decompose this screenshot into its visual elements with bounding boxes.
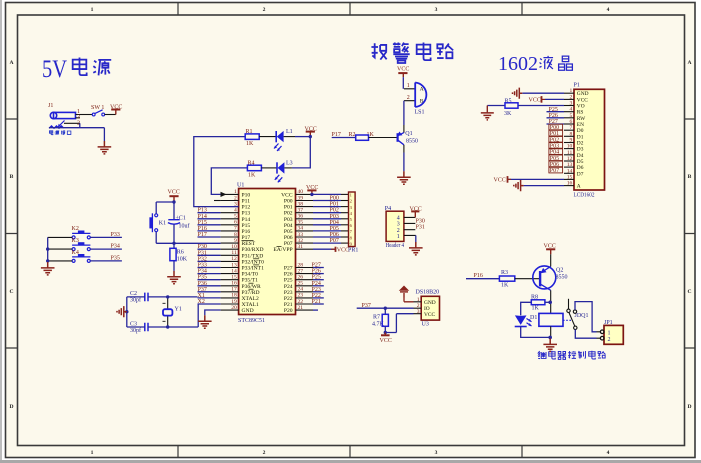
svg-text:D1: D1 <box>530 315 537 321</box>
wire jack sleeve to ground <box>49 123 104 141</box>
svg-text:XTAL1: XTAL1 <box>242 302 259 308</box>
port label P02 <box>549 137 563 144</box>
svg-text:37: 37 <box>298 208 304 214</box>
junction <box>548 301 552 305</box>
svg-text:D3: D3 <box>577 147 584 153</box>
svg-text:4: 4 <box>397 216 400 222</box>
svg-text:P34: P34 <box>198 269 207 275</box>
svg-text:REST: REST <box>242 241 256 247</box>
svg-text:LCD1602: LCD1602 <box>574 193 595 199</box>
svg-text:X1: X1 <box>198 293 205 299</box>
junction <box>125 310 128 313</box>
svg-text:30pf: 30pf <box>130 327 141 334</box>
LED L1 <box>274 129 293 151</box>
sensor U3 DS18B20 body <box>414 290 440 328</box>
svg-text:15: 15 <box>567 174 573 180</box>
svg-text:P01: P01 <box>284 205 293 211</box>
svg-text:P26: P26 <box>312 269 321 275</box>
svg-text:P22: P22 <box>312 293 321 299</box>
svg-text:P13: P13 <box>198 208 207 214</box>
power VCC (buzzer) <box>397 67 409 78</box>
svg-text:R7: R7 <box>373 315 380 321</box>
svg-text:B: B <box>420 98 424 104</box>
svg-text:R3: R3 <box>501 270 508 276</box>
svg-text:VCC: VCC <box>337 248 349 254</box>
svg-text:2: 2 <box>397 228 400 234</box>
svg-text:GND: GND <box>242 308 254 314</box>
svg-text:L3: L3 <box>286 161 293 167</box>
svg-text:3: 3 <box>570 101 573 107</box>
power VCC (R7, pointing down) <box>380 333 392 345</box>
capacitor C3 30pf <box>130 321 148 334</box>
svg-text:P32/INT0: P32/INT0 <box>242 259 265 265</box>
svg-text:10: 10 <box>231 244 237 250</box>
svg-text:P26: P26 <box>284 272 293 278</box>
svg-text:7: 7 <box>570 125 573 131</box>
svg-text:3: 3 <box>397 222 400 228</box>
svg-text:U3: U3 <box>422 322 429 328</box>
svg-text:32: 32 <box>298 238 304 244</box>
net labels P27-P21 <box>312 263 321 306</box>
svg-text:P02: P02 <box>284 211 293 217</box>
wire K3 right to P34 <box>90 248 122 250</box>
svg-text:A: A <box>577 184 581 190</box>
transistor Q1 8550 <box>397 131 418 145</box>
power VCC (P4 pin4) <box>410 207 422 218</box>
wire left cap rail <box>126 297 128 327</box>
svg-text:15: 15 <box>231 275 237 281</box>
wire R6 to ground <box>173 261 175 271</box>
power VCC (supply) <box>110 105 122 115</box>
svg-text:27: 27 <box>298 268 304 274</box>
wire crystal bottom to X2 <box>127 304 198 327</box>
svg-text:P37/RD: P37/RD <box>242 290 260 296</box>
svg-text:1K: 1K <box>501 283 509 289</box>
wire switch common to JP1 pin2 <box>575 330 596 339</box>
svg-text:2: 2 <box>263 450 266 456</box>
svg-text:D4: D4 <box>577 153 584 159</box>
svg-text:2: 2 <box>407 95 410 101</box>
ground (Q1) <box>397 171 411 184</box>
svg-text:PR1: PR1 <box>348 248 358 254</box>
wire U3 pin1 to signal ground <box>404 298 414 302</box>
svg-text:10K: 10K <box>177 257 188 263</box>
svg-text:18: 18 <box>231 293 237 299</box>
svg-text:P00: P00 <box>284 199 293 205</box>
svg-text:P06: P06 <box>330 232 339 238</box>
svg-text:8550: 8550 <box>406 139 418 145</box>
svg-text:VCC: VCC <box>397 67 409 73</box>
resistor pack PR1 <box>349 192 356 247</box>
port label P03 <box>549 143 563 150</box>
power VCC (Q2) <box>544 244 556 255</box>
svg-text:P23: P23 <box>284 290 293 296</box>
junction <box>309 135 312 138</box>
svg-text:P04: P04 <box>284 223 293 229</box>
port label P00 <box>549 124 563 131</box>
wire R1 to L1 <box>259 136 276 138</box>
power VCC (mcu pin40) <box>306 185 318 195</box>
svg-text:STC89C51: STC89C51 <box>238 318 265 324</box>
capacitor C1 10uf <box>168 216 190 230</box>
power VCC (EA pin31, pointing right) <box>331 247 349 254</box>
ground (reset) <box>167 271 181 284</box>
svg-text:3: 3 <box>435 7 438 13</box>
junction <box>166 295 169 298</box>
svg-text:P06: P06 <box>284 235 293 241</box>
svg-text:P35: P35 <box>198 275 207 281</box>
svg-text:P33/INT1: P33/INT1 <box>242 266 265 272</box>
svg-text:LS1: LS1 <box>415 110 425 116</box>
signal ground (DS18B20) <box>399 286 409 298</box>
wire L3 right <box>284 167 292 169</box>
svg-text:P34/T0: P34/T0 <box>242 272 259 278</box>
svg-text:P01: P01 <box>330 202 339 208</box>
transistor Q2 8550 <box>533 266 568 290</box>
svg-text:P11: P11 <box>242 199 251 205</box>
ground (relay) <box>543 339 557 352</box>
svg-text:D7: D7 <box>577 171 584 177</box>
junction <box>310 193 313 196</box>
svg-text:P35/T1: P35/T1 <box>242 278 259 284</box>
svg-text:R6: R6 <box>177 250 184 256</box>
svg-text:VO: VO <box>577 104 585 110</box>
title: 继电器控制电路 <box>538 351 605 360</box>
svg-text:C: C <box>9 289 13 295</box>
svg-text:P32: P32 <box>198 256 207 262</box>
ground (lcd pin16, pointing left) <box>514 180 524 191</box>
svg-text:RS: RS <box>577 110 584 116</box>
wire K2 right to P33 <box>90 236 122 238</box>
port label P05 <box>549 155 563 162</box>
svg-text:38: 38 <box>298 201 304 207</box>
svg-text:VCC: VCC <box>110 105 122 111</box>
svg-text:16: 16 <box>567 181 573 187</box>
net labels P00-P07 <box>330 196 339 245</box>
svg-text:U1: U1 <box>237 183 244 189</box>
connector P4 Header 4 <box>385 206 416 249</box>
svg-text:P07: P07 <box>330 238 339 244</box>
wire D1 to ground rail <box>521 327 551 338</box>
svg-text:2: 2 <box>570 94 573 100</box>
connector J1 power jack <box>48 103 80 128</box>
svg-text:1: 1 <box>570 88 573 94</box>
lcd pin numbers <box>567 88 573 186</box>
svg-text:17: 17 <box>231 287 237 293</box>
resistor R7 4.7K <box>372 314 388 327</box>
ground (mcu pin20) <box>198 315 212 328</box>
svg-text:P05: P05 <box>284 229 293 235</box>
switch SW1 <box>91 105 105 116</box>
svg-text:P02: P02 <box>330 208 339 214</box>
power VCC (lcd pin2) <box>541 96 543 103</box>
svg-text:8: 8 <box>570 131 573 137</box>
svg-text:C: C <box>687 289 691 295</box>
wire R8 left down to D1 <box>521 302 532 315</box>
svg-text:P25: P25 <box>312 275 321 281</box>
svg-text:P25: P25 <box>549 107 558 113</box>
svg-text:P22: P22 <box>284 296 293 302</box>
lcd pin stubs <box>564 93 574 185</box>
svg-text:Y1: Y1 <box>175 307 182 313</box>
svg-text:P17: P17 <box>198 232 207 238</box>
svg-text:P31: P31 <box>198 250 207 256</box>
junction <box>46 259 49 262</box>
svg-text:Header 4: Header 4 <box>386 243 405 249</box>
wire VCC to Q2 emitter <box>550 254 552 266</box>
mcu left net label wires <box>198 213 221 304</box>
svg-text:P00: P00 <box>330 196 339 202</box>
svg-text:VCC: VCC <box>380 338 392 344</box>
svg-text:K1: K1 <box>159 221 166 227</box>
svg-text:11: 11 <box>567 150 573 156</box>
svg-text:2: 2 <box>234 195 237 201</box>
wire P37 to U3 pin2 <box>357 307 414 309</box>
port label P06 <box>549 161 563 168</box>
svg-text:P31/TXD: P31/TXD <box>242 253 264 259</box>
svg-text:40: 40 <box>298 189 304 195</box>
net labels left <box>198 208 207 305</box>
mcu left pin numbers <box>231 189 237 311</box>
wire R2 to Q1 base <box>369 137 398 139</box>
svg-text:Q2: Q2 <box>556 268 563 274</box>
svg-text:+C1: +C1 <box>176 216 186 222</box>
mcu right pin stubs <box>296 194 314 310</box>
svg-text:J1: J1 <box>48 103 53 109</box>
svg-text:XTAL2: XTAL2 <box>242 296 259 302</box>
svg-text:P34: P34 <box>111 244 120 250</box>
wire stub at mcu pin2 <box>214 200 221 202</box>
wire switch to VCC <box>105 114 116 116</box>
svg-text:10: 10 <box>567 144 573 150</box>
junction <box>384 331 387 334</box>
svg-text:P31: P31 <box>416 225 425 231</box>
svg-text:3: 3 <box>435 450 438 456</box>
svg-text:P33: P33 <box>111 232 120 238</box>
svg-text:P30/RXD: P30/RXD <box>242 247 264 253</box>
power VCC (leds) <box>305 127 317 137</box>
wire R7 bottom to U3 pin3 <box>385 314 413 333</box>
svg-text:P21: P21 <box>312 299 321 305</box>
svg-text:D1: D1 <box>577 134 584 140</box>
svg-text:28: 28 <box>298 262 304 268</box>
svg-text:K2: K2 <box>72 226 79 232</box>
wire VCC down to L3 <box>292 137 310 168</box>
svg-text:D: D <box>687 404 691 410</box>
svg-text:P07: P07 <box>550 168 559 174</box>
svg-text:4: 4 <box>607 7 610 13</box>
title: 1602液晶 <box>498 53 572 75</box>
wire P10 to R4 <box>211 168 247 195</box>
label 电源接口 <box>49 130 70 134</box>
mcu left pin stubs <box>221 194 239 310</box>
connector JP1 <box>597 320 624 344</box>
svg-text:9: 9 <box>570 138 573 144</box>
svg-text:8550: 8550 <box>556 275 568 281</box>
svg-text:26: 26 <box>298 275 304 281</box>
svg-text:D: D <box>9 404 13 410</box>
svg-text:1: 1 <box>91 450 94 456</box>
svg-text:P07: P07 <box>284 241 293 247</box>
wire K2 left <box>48 236 72 238</box>
window edge shading <box>0 0 2 463</box>
wire R4 to L3 <box>261 167 277 169</box>
resistor R3 1K <box>499 270 514 289</box>
wire reset top <box>156 201 174 219</box>
svg-text:8: 8 <box>234 232 237 238</box>
svg-text:20: 20 <box>231 305 237 311</box>
svg-text:23: 23 <box>298 293 304 299</box>
svg-text:P35: P35 <box>111 256 120 262</box>
svg-text:2: 2 <box>263 7 266 13</box>
svg-text:P04: P04 <box>330 220 339 226</box>
wire jack pin1 to switch <box>80 114 92 116</box>
lcd P1 body <box>574 83 605 199</box>
svg-text:5: 5 <box>570 113 573 119</box>
svg-text:31: 31 <box>298 244 304 250</box>
svg-text:L1: L1 <box>286 129 293 135</box>
svg-text:P16: P16 <box>242 229 251 235</box>
junction <box>172 242 175 245</box>
svg-text:1: 1 <box>417 297 420 303</box>
svg-text:P26: P26 <box>549 113 558 119</box>
port label P07 <box>549 167 563 174</box>
button K2 <box>72 226 91 239</box>
button K4 <box>72 250 91 262</box>
wire lcd pin2 <box>545 98 564 100</box>
resistor R4 1K <box>247 160 261 178</box>
wire VCC to buzzer pin1 <box>402 77 404 89</box>
ground (R5) <box>481 113 494 120</box>
svg-text:P30: P30 <box>416 218 425 224</box>
svg-text:P1: P1 <box>574 83 580 89</box>
svg-text:P16: P16 <box>198 226 207 232</box>
power VCC (reset) <box>168 190 180 202</box>
svg-text:D2: D2 <box>577 141 584 147</box>
wire R3 to Q2 base <box>515 278 540 280</box>
svg-text:1: 1 <box>608 330 611 336</box>
svg-text:1K: 1K <box>532 305 540 311</box>
svg-text:K4: K4 <box>72 250 79 256</box>
wire L1 to VCC <box>284 136 295 138</box>
svg-text:35: 35 <box>298 220 304 226</box>
svg-text:P15: P15 <box>242 223 251 229</box>
lcd pin names <box>577 91 589 189</box>
svg-text:D5: D5 <box>577 159 584 165</box>
wire crystal top X1 <box>127 296 198 298</box>
wire gnd pin20 <box>205 310 221 315</box>
svg-text:P15: P15 <box>198 220 207 226</box>
svg-text:EN: EN <box>577 122 584 128</box>
svg-text:B: B <box>688 174 692 180</box>
svg-text:13: 13 <box>567 162 573 168</box>
svg-text:12: 12 <box>231 256 237 262</box>
wires P2 port nets <box>313 268 324 311</box>
svg-text:2: 2 <box>608 337 611 343</box>
port label P04 <box>549 149 563 156</box>
svg-text:14: 14 <box>567 168 573 174</box>
svg-text:EA/VPP: EA/VPP <box>273 247 292 253</box>
svg-text:Q1: Q1 <box>405 131 412 137</box>
junction <box>548 336 552 340</box>
wire lcd pin5 <box>547 117 565 119</box>
relay coil JDQ1 <box>539 313 589 338</box>
wire P17 to R2 <box>332 137 356 139</box>
wire R7 top <box>384 308 386 314</box>
svg-text:VCC: VCC <box>168 190 180 196</box>
svg-text:VCC: VCC <box>494 177 506 183</box>
wire reset bottom <box>156 224 220 248</box>
mcu left pin names <box>242 192 265 314</box>
wire P16 to R3 <box>466 278 499 280</box>
wire lcd pin1 <box>522 92 564 94</box>
mcu right pin numbers <box>298 189 304 311</box>
svg-text:7: 7 <box>234 226 237 232</box>
svg-text:1K: 1K <box>248 173 256 179</box>
capacitor C2 30pf <box>130 291 148 304</box>
svg-text:4: 4 <box>234 208 237 214</box>
svg-text:1: 1 <box>407 83 410 89</box>
svg-text:VCC: VCC <box>281 192 293 198</box>
wire common left rail <box>47 237 49 262</box>
wire switch NO to JP1 pin1 <box>575 302 597 332</box>
svg-text:1602: 1602 <box>498 53 538 75</box>
svg-text:P10: P10 <box>242 192 251 198</box>
wire Q1 collector to ground <box>403 145 405 153</box>
junction arrow at pin1 <box>221 192 227 197</box>
crystal Y1 <box>163 297 182 327</box>
svg-text:4: 4 <box>607 450 610 456</box>
svg-text:3K: 3K <box>504 111 512 117</box>
svg-text:P17: P17 <box>242 235 251 241</box>
ground (buttons) <box>41 262 55 275</box>
wire P12 to R1 <box>194 137 245 207</box>
svg-text:P20: P20 <box>284 308 293 314</box>
svg-text:4: 4 <box>570 107 573 113</box>
button K3 <box>72 238 91 251</box>
svg-text:22: 22 <box>298 299 304 305</box>
svg-text:B: B <box>10 174 14 180</box>
svg-text:A: A <box>687 60 691 66</box>
svg-text:P13: P13 <box>242 211 251 217</box>
svg-text:10uf: 10uf <box>179 223 190 230</box>
svg-text:1: 1 <box>397 234 400 240</box>
svg-text:1: 1 <box>234 189 237 195</box>
svg-text:A: A <box>420 87 424 93</box>
wire lcd pin15 <box>508 178 564 180</box>
wire P4 pin1 to ground <box>415 235 417 242</box>
svg-text:1K: 1K <box>246 141 254 147</box>
svg-text:P25: P25 <box>284 278 293 284</box>
svg-text:P23: P23 <box>312 287 321 293</box>
svg-text:D0: D0 <box>577 128 584 134</box>
svg-text:P21: P21 <box>284 302 293 308</box>
resistor R6 10K <box>170 248 188 262</box>
wire K4 left <box>48 260 72 262</box>
resistor R2 1K <box>349 132 375 140</box>
port label P01 <box>549 130 563 137</box>
svg-text:VCC: VCC <box>424 312 435 318</box>
svg-text:5V: 5V <box>42 56 67 83</box>
svg-text:1: 1 <box>91 7 94 13</box>
svg-text:11: 11 <box>231 250 237 256</box>
title: 5V电源 <box>42 56 111 83</box>
svg-text:12: 12 <box>567 156 573 162</box>
svg-text:13: 13 <box>231 262 237 268</box>
title: 报警电路 <box>371 43 453 63</box>
wire lcd pin3 <box>487 105 564 107</box>
svg-text:A: A <box>9 60 13 66</box>
